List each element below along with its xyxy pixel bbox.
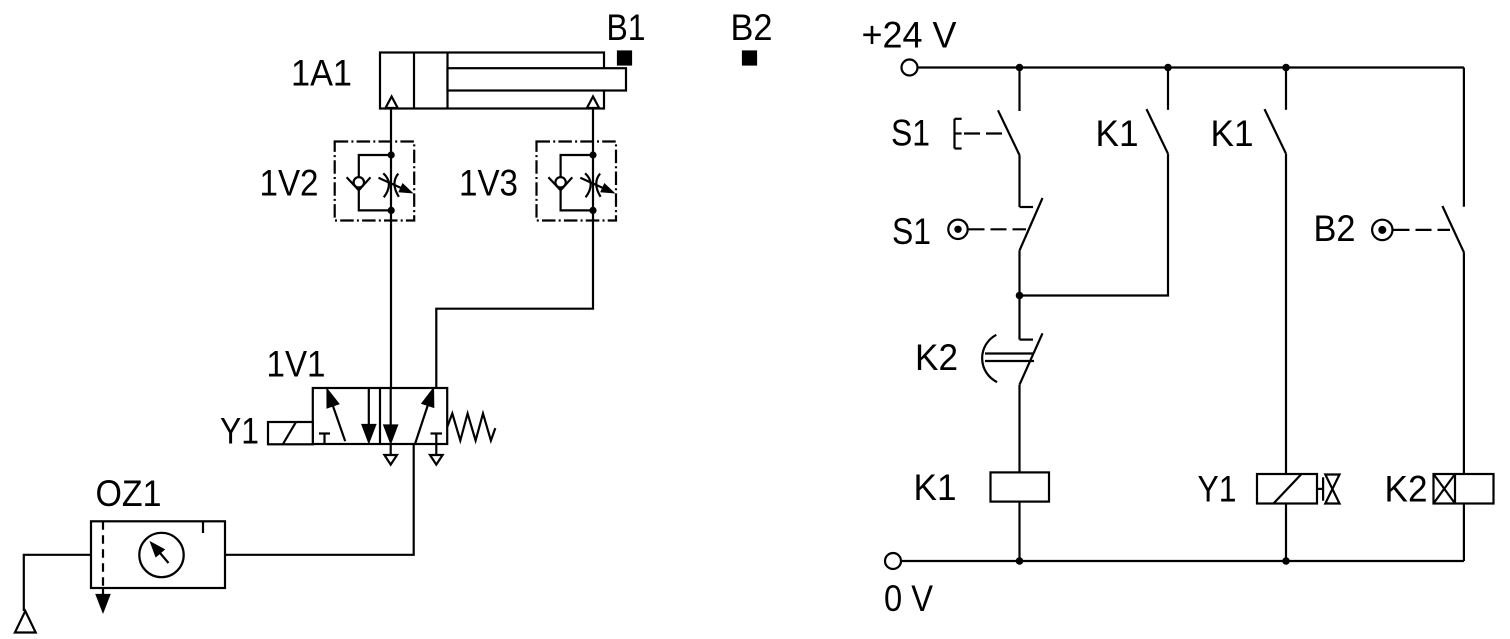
flow control valve 1V3: [537, 142, 617, 221]
wire rail to K1 contact: [1167, 68, 1169, 110]
sensor mark B2: [743, 52, 756, 65]
wire +24 V rail: [918, 66, 1464, 68]
junction node rail/K1b: [1282, 64, 1290, 72]
service unit OZ1: [91, 521, 225, 588]
junction (bottom): [388, 207, 395, 214]
pushbutton actuator symbol S1: [955, 119, 962, 149]
wire 0 V rail: [901, 560, 1464, 562]
valve 1V1 body: [313, 388, 447, 444]
valve 1V1 left position arrows: [319, 388, 375, 444]
compressed air source triangle: [15, 611, 36, 633]
wire valve port 1 to service unit OZ1: [225, 444, 414, 555]
sensor mark B1: [618, 52, 631, 65]
svg-text:B2: B2: [1314, 208, 1356, 249]
wire coil K1 to 0V: [1018, 502, 1020, 561]
svg-text:OZ1: OZ1: [96, 473, 162, 514]
contact K2 break (NC, off-delay): [1020, 333, 1043, 384]
bypass wire: [359, 155, 391, 210]
junction node 0V/K1: [1016, 557, 1024, 565]
exhaust port 5 with silencer triangle: [384, 444, 397, 465]
svg-text:K1: K1: [1211, 113, 1254, 154]
exhaust port 3 with silencer triangle: [430, 444, 443, 465]
svg-text:1V3: 1V3: [459, 162, 518, 203]
cylinder 1A1: [380, 53, 626, 109]
solenoid Y1 pilot box: [268, 422, 313, 444]
actuator dashed link S1 break: [969, 228, 1027, 230]
terminal 0 V: [885, 553, 901, 569]
valve 1V1 right position arrows: [384, 388, 442, 444]
wire rail corner to B2 contact: [1463, 68, 1465, 207]
relay coil K1: [991, 472, 1050, 501]
junction node rail/S1: [1016, 64, 1024, 72]
bypass wire: [561, 155, 593, 210]
cylinder port (front): [587, 97, 599, 109]
contact K1b make (NO): [1265, 109, 1287, 154]
component frame (dash-dot): [335, 142, 415, 221]
contact S1 break (NC): [1020, 198, 1043, 251]
wire S1 contacts: [1018, 155, 1020, 207]
wire K1 latch branch: [1020, 154, 1169, 296]
contact K1 make (NO): [1147, 109, 1169, 154]
wire coil K2 to 0V: [1463, 504, 1465, 562]
svg-text:1A1: 1A1: [291, 53, 352, 94]
wire node to K2 contact: [1018, 296, 1020, 340]
svg-text:1V2: 1V2: [260, 162, 319, 203]
wire rail to K1b contact: [1285, 68, 1287, 110]
sensor symbol B2: [1372, 220, 1392, 240]
adjustable throttle: [379, 173, 411, 197]
component frame (dash-dot): [537, 142, 617, 221]
junction (top): [388, 151, 395, 158]
svg-text:K1: K1: [914, 467, 957, 508]
wire cylinder left port to valve 1V1 port 4: [390, 109, 392, 389]
svg-text:K2: K2: [915, 337, 958, 378]
actuator dashed link S1: [964, 132, 1007, 134]
svg-text:B2: B2: [731, 7, 773, 48]
piston: [414, 53, 448, 109]
detent symbol S1: [948, 220, 967, 239]
svg-text:Y1: Y1: [220, 411, 259, 452]
pressure gauge: [139, 533, 183, 577]
solenoid coil Y1: [1257, 474, 1340, 504]
wire S1 to node: [1018, 251, 1020, 296]
wire B2 to coil K2: [1463, 252, 1465, 474]
svg-text:0 V: 0 V: [884, 578, 933, 619]
svg-text:S1: S1: [892, 211, 931, 252]
svg-text:K1: K1: [1096, 113, 1139, 154]
relay coil K2 (off-delay): [1434, 474, 1494, 504]
svg-text:B1: B1: [607, 7, 646, 48]
wire solenoid Y1 to 0V: [1285, 504, 1287, 562]
check valve: [347, 177, 371, 190]
wire OZ1 inlet: [24, 555, 91, 611]
wire K2 contact to coil K1: [1018, 385, 1020, 473]
svg-text:K2: K2: [1385, 469, 1428, 510]
contact S1 make (NO): [998, 110, 1020, 155]
drain arrow: [97, 588, 109, 611]
flow control valve 1V2: [335, 142, 415, 221]
svg-text:S1: S1: [891, 113, 930, 154]
actuator dashed link B2: [1394, 229, 1451, 231]
svg-text:Y1: Y1: [1198, 469, 1237, 510]
svg-text:+24 V: +24 V: [862, 15, 957, 56]
wire rail to S1: [1018, 68, 1020, 112]
junction (top): [589, 151, 596, 158]
junction node latch: [1016, 292, 1024, 300]
terminal +24 V: [902, 60, 918, 76]
off-delay symbol K2: [982, 335, 1034, 382]
wire K1b to solenoid Y1: [1285, 154, 1287, 474]
junction (bottom): [589, 207, 596, 214]
check valve: [548, 177, 572, 190]
junction node 0V/Y1: [1282, 557, 1290, 565]
contact B2 make (NO): [1442, 206, 1464, 252]
junction node rail/K1: [1164, 64, 1172, 72]
piston rod: [448, 68, 627, 90]
adjustable throttle: [580, 173, 612, 197]
return spring: [447, 414, 495, 441]
svg-text:1V1: 1V1: [267, 344, 326, 385]
cylinder port (rear): [386, 97, 398, 109]
wire cylinder right port to valve 1V1 port 2: [436, 109, 593, 389]
